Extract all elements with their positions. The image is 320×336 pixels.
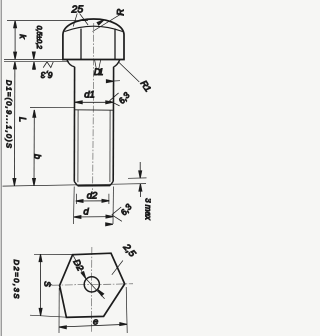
- label R1 with leader: [119, 62, 154, 93]
- chamfer left: [74, 182, 77, 186]
- washer face right curve: [114, 60, 120, 67]
- dimension d: [74, 187, 114, 225]
- ext line S bottom: [30, 315, 66, 317]
- label R with leader: [93, 9, 127, 32]
- head face line right: [114, 29, 116, 60]
- washer face left curve: [67, 60, 75, 67]
- svg-text:d2: d2: [87, 190, 98, 201]
- svg-text:d1: d1: [84, 90, 95, 101]
- centerline horizontal: [52, 284, 133, 285]
- head face line left: [80, 29, 82, 60]
- page gutter line: [0, 0, 2, 336]
- label D1 with leaders: [94, 60, 104, 77]
- dimension 3 max: [128, 162, 152, 221]
- bolt end line: [78, 185, 111, 187]
- label 25 with leaders: [71, 4, 89, 27]
- label 2,5 with leader: [112, 241, 138, 274]
- head inner chamfer arc: [65, 26, 123, 31]
- thread minor left: [77, 110, 79, 182]
- ext line e left: [58, 288, 60, 333]
- ext line bearing face: [4, 61, 69, 63]
- ext line b top: [30, 106, 74, 108]
- centerline bolt axis: [93, 23, 94, 190]
- dimension b: [32, 110, 42, 186]
- thread start line: [75, 109, 114, 111]
- chamfer right: [110, 181, 113, 185]
- dimension 0,5±0,2: [32, 26, 41, 70]
- hole circle D2: [84, 277, 99, 292]
- dimension L: [13, 62, 28, 186]
- ext line S top: [34, 253, 73, 255]
- label D2 with leader through hole: [71, 255, 104, 299]
- svg-text:d: d: [83, 207, 89, 218]
- thread minor right: [109, 110, 111, 182]
- ext line e right: [126, 287, 127, 333]
- svg-text:S: S: [42, 281, 52, 287]
- hexagon: [60, 253, 125, 317]
- svg-text:R: R: [116, 9, 127, 16]
- shaft right edge: [112, 67, 114, 182]
- svg-text:b: b: [32, 154, 42, 159]
- ext line head bottom: [4, 58, 64, 60]
- svg-text:D1=(0,9...1,0)S: D1=(0,9...1,0)S: [5, 80, 14, 148]
- dimension e: [59, 316, 127, 328]
- dimension d2: [76, 190, 109, 204]
- svg-text:L: L: [18, 117, 28, 122]
- svg-text:0,5±0,2: 0,5±0,2: [35, 26, 42, 49]
- head outline: [63, 19, 124, 60]
- roughness 6,3 under bearing ext line: [41, 62, 54, 80]
- svg-text:e: e: [93, 316, 98, 327]
- dimension k: [14, 21, 29, 60]
- roughness 6,3 at d2 ext: [106, 202, 134, 226]
- ext line bolt end: [3, 184, 147, 187]
- dimension d1: [75, 90, 113, 104]
- centerline squiggle: [46, 284, 52, 285]
- roughness 6,3 on shank right: [106, 80, 131, 106]
- ext line k top: [7, 20, 88, 22]
- dimension S: [39, 254, 52, 315]
- svg-text:3 max: 3 max: [143, 198, 151, 221]
- svg-text:6,3: 6,3: [41, 70, 53, 80]
- shaft left edge: [73, 67, 75, 182]
- centerline vertical: [90, 247, 93, 333]
